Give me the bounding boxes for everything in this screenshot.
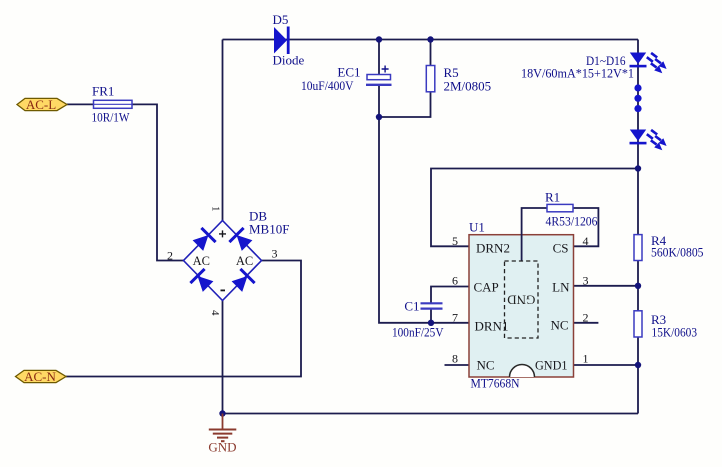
svg-text:NC: NC	[477, 358, 495, 373]
wire R4R3 middle segment	[637, 286, 639, 311]
svg-text:2: 2	[583, 311, 589, 325]
capacitor EC1 (polarized)	[301, 65, 392, 94]
svg-text:4: 4	[583, 234, 589, 248]
diode D5	[273, 12, 305, 68]
wire EC1 branch top	[378, 40, 380, 76]
svg-text:MB10F: MB10F	[249, 222, 289, 237]
svg-text:NC: NC	[550, 318, 568, 333]
svg-text:R1: R1	[545, 190, 560, 205]
wire bridge pin3 to AC-N net	[66, 261, 301, 377]
U1 internal GND dashed box	[505, 261, 539, 338]
junction node top R5	[427, 36, 433, 42]
bridge diode bottom-left	[190, 269, 213, 292]
svg-text:GND: GND	[208, 440, 236, 455]
svg-text:2: 2	[167, 249, 173, 263]
svg-text:FR1: FR1	[92, 84, 114, 99]
capacitor C1	[392, 299, 444, 340]
wire R5 bottom L to junction	[379, 92, 431, 117]
svg-text:DRN2: DRN2	[476, 241, 510, 256]
svg-text:18V/60mA*15+12V*1: 18V/60mA*15+12V*1	[521, 66, 634, 81]
svg-text:C1: C1	[404, 299, 419, 314]
svg-text:3: 3	[583, 274, 589, 288]
svg-text:LN: LN	[552, 280, 570, 295]
svg-text:AC-L: AC-L	[26, 97, 56, 112]
wire CAP pin6 to C1	[431, 287, 469, 303]
svg-text:15K/0603: 15K/0603	[652, 325, 698, 340]
wire pin2 stub	[574, 322, 599, 324]
svg-text:Diode: Diode	[273, 53, 305, 68]
wire EC1 bottom to junction	[378, 85, 380, 117]
wire R1 right to pin4	[573, 208, 598, 246]
wire LED chain vertical	[637, 40, 639, 235]
junction node GND1/R3	[635, 362, 641, 368]
junction node LN/R4/R3	[635, 283, 641, 289]
junction node EC1/R5 bottom	[376, 114, 382, 120]
svg-text:DRN1: DRN1	[475, 319, 509, 334]
bridge plus mark	[219, 230, 226, 237]
bridge diode top-right	[229, 228, 252, 251]
svg-text:GND: GND	[507, 293, 535, 308]
bridge diode bottom-right	[232, 269, 255, 292]
svg-text:CS: CS	[553, 241, 569, 256]
junction node C1/DRN1	[428, 320, 434, 326]
svg-text:8: 8	[452, 352, 458, 366]
svg-text:5: 5	[452, 234, 458, 248]
wire DRN1 vertical from junction to pin7	[379, 117, 469, 323]
wire R1 left into internal GND box	[522, 208, 547, 261]
svg-text:GND1: GND1	[535, 358, 568, 373]
wire bridge bottom vertical	[222, 301, 224, 414]
bridge minus mark	[221, 290, 226, 292]
svg-text:10uF/400V: 10uF/400V	[301, 78, 354, 93]
svg-text:10R/1W: 10R/1W	[92, 110, 131, 125]
wire R4 bottom segment	[637, 261, 639, 286]
svg-text:AC: AC	[193, 254, 210, 268]
resistor R1	[545, 190, 598, 229]
svg-text:1: 1	[583, 352, 589, 366]
svg-text:AC: AC	[236, 254, 253, 268]
resistor FR1	[92, 84, 133, 125]
svg-text:2M/0805: 2M/0805	[444, 79, 492, 94]
port AC-L	[17, 97, 67, 112]
svg-text:D5: D5	[273, 12, 289, 27]
svg-text:560K/0805: 560K/0805	[651, 245, 704, 260]
wire bridge top vertical	[222, 40, 224, 221]
bridge diode top-left	[193, 228, 216, 251]
ellipsis dots of LED string	[634, 84, 641, 112]
junction node ground rail	[219, 410, 225, 416]
resistor R3	[634, 311, 697, 340]
svg-text:U1: U1	[469, 220, 485, 235]
wire pin1 GND1 to junction	[574, 364, 639, 366]
bridge DB outline	[184, 209, 290, 301]
svg-text:MT7668N: MT7668N	[471, 376, 521, 391]
wire top rail	[223, 39, 639, 41]
LED D1 top of string	[630, 53, 667, 74]
wire R3 bottom segment	[637, 337, 639, 414]
svg-text:3: 3	[272, 247, 278, 261]
svg-text:CAP: CAP	[474, 280, 499, 295]
junction node LED bottom	[635, 165, 641, 171]
junction node top EC1	[376, 36, 382, 42]
svg-text:AC-N: AC-N	[24, 369, 56, 384]
wire AC-L to FR1	[67, 103, 94, 105]
svg-text:4: 4	[209, 310, 221, 316]
wire pin3 LN to R4R3 junction	[574, 285, 639, 287]
svg-text:4R53/1206: 4R53/1206	[546, 214, 598, 229]
svg-text:1: 1	[209, 206, 221, 212]
resistor R4	[634, 233, 704, 261]
wire R5 branch top	[430, 40, 432, 66]
wire FR1 to bridge pin2	[132, 104, 184, 260]
wire pin8 stub	[445, 364, 470, 366]
port AC-N	[16, 369, 67, 384]
op IC U1 MT7668N body	[469, 220, 574, 391]
LED D16 bottom of string	[630, 130, 667, 151]
ground symbol GND	[208, 414, 236, 455]
wire bottom rail	[223, 413, 639, 415]
svg-text:6: 6	[452, 274, 458, 288]
resistor R5	[426, 65, 491, 94]
svg-text:7: 7	[452, 311, 458, 325]
wire C1 bottom to pin7 net	[430, 310, 432, 323]
wire LED bottom to DRN2 horizontal	[431, 169, 638, 247]
svg-text:100nF/25V: 100nF/25V	[392, 325, 444, 340]
